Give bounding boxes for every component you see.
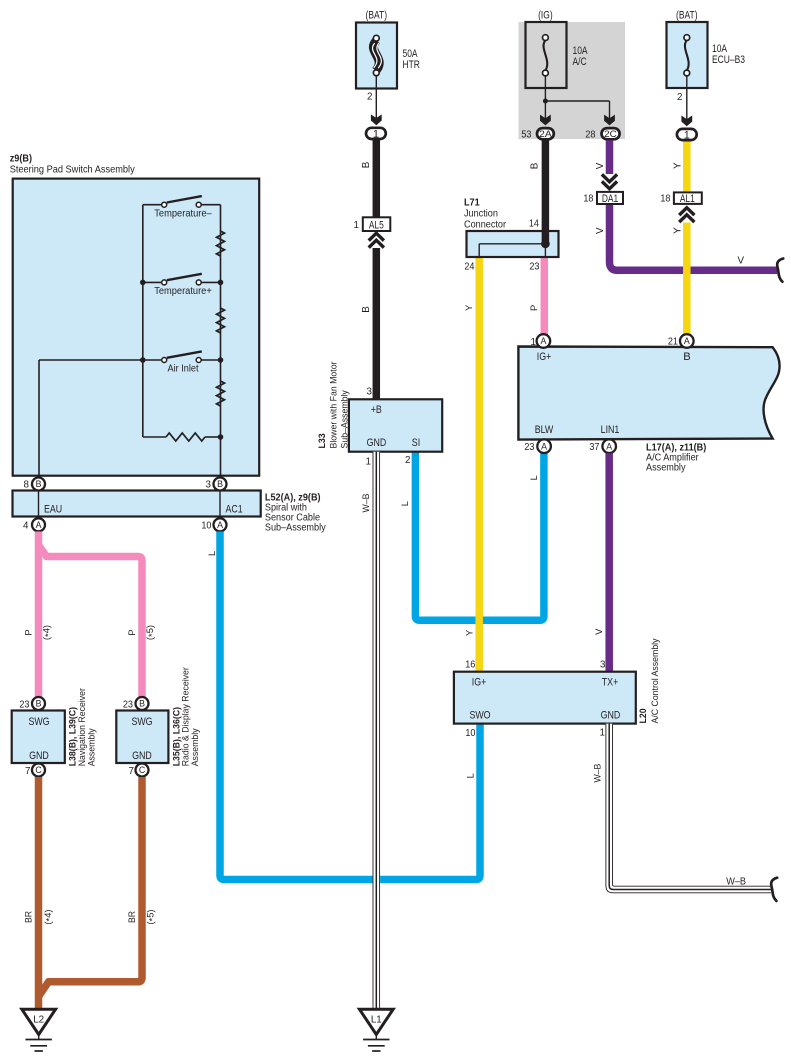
svg-text:23: 23: [19, 699, 30, 710]
svg-text:18: 18: [583, 194, 594, 205]
wire B F1 upper: [373, 140, 381, 217]
svg-text:10: 10: [201, 521, 212, 532]
wire L71 internal: [544, 244, 546, 257]
svg-text:C: C: [139, 765, 146, 775]
svg-text:28: 28: [585, 129, 596, 140]
svg-text:DA1: DA1: [602, 193, 618, 205]
svg-text:23: 23: [529, 262, 540, 273]
wire V 2C to DA1: [606, 140, 614, 174]
wire Y AL1 to amp pin21: [683, 223, 691, 336]
arrow into connector 1 ECU: [681, 116, 692, 127]
svg-text:Connector: Connector: [464, 220, 507, 231]
svg-text:16: 16: [465, 660, 476, 671]
svg-text:L: L: [464, 773, 475, 778]
svg-text:SWG: SWG: [28, 716, 49, 728]
svg-text:A: A: [36, 520, 42, 530]
wire L AC1 to SWO: [220, 532, 480, 880]
svg-text:LIN1: LIN1: [601, 424, 620, 436]
svg-text:L1: L1: [371, 1015, 382, 1026]
svg-text:(IG): (IG): [538, 9, 553, 21]
svg-text:B: B: [530, 162, 541, 169]
svg-text:B: B: [361, 161, 372, 168]
svg-text:10: 10: [465, 728, 476, 739]
svg-text:Sub–Assembly: Sub–Assembly: [265, 523, 326, 534]
chevrons DA1: [602, 181, 617, 188]
svg-text:24: 24: [464, 262, 475, 273]
wire pin3 through strip: [219, 476, 221, 524]
fuse F3 element: [685, 40, 689, 70]
svg-text:Y: Y: [673, 227, 684, 234]
svg-text:Y: Y: [463, 304, 474, 311]
svg-text:SWO: SWO: [469, 709, 490, 721]
svg-text:ECU–B3: ECU–B3: [712, 54, 745, 66]
fuse F1 50A HTR box: [356, 23, 397, 89]
svg-text:A: A: [541, 441, 547, 451]
svg-text:1: 1: [354, 220, 359, 231]
svg-text:+B: +B: [371, 404, 382, 416]
spiral cable strip box: [13, 491, 261, 517]
svg-text:B: B: [36, 699, 42, 709]
blower motor box L33: [349, 399, 442, 451]
svg-text:Assembly: Assembly: [646, 463, 686, 474]
svg-text:GND: GND: [601, 709, 621, 721]
fuse F1 element: [373, 40, 379, 71]
svg-text:Y: Y: [464, 629, 475, 636]
svg-text:V: V: [595, 162, 606, 169]
wire F3 down: [686, 76, 688, 121]
svg-text:1: 1: [684, 130, 690, 142]
svg-text:2: 2: [677, 92, 682, 103]
svg-text:2A: 2A: [539, 129, 552, 139]
svg-text:Blower with Fan Motor: Blower with Fan Motor: [328, 362, 339, 449]
svg-text:A: A: [684, 336, 690, 346]
svg-text:B: B: [683, 351, 690, 363]
resistor R1: [217, 231, 225, 256]
wire P pin4 down: [35, 532, 43, 698]
ground L1: [359, 1009, 393, 1034]
svg-text:3: 3: [600, 660, 606, 671]
resistor R4: [166, 433, 205, 441]
wire W-B L20 GND elbow: [609, 724, 771, 890]
svg-text:1: 1: [373, 128, 379, 140]
svg-text:B: B: [217, 479, 223, 489]
junction dot F2: [543, 99, 548, 104]
arrow into 2A: [540, 115, 551, 126]
connector oval 1 HTR: [366, 128, 386, 139]
svg-text:(BAT): (BAT): [676, 9, 698, 21]
svg-text:Air Inlet: Air Inlet: [168, 364, 199, 375]
svg-text:8: 8: [24, 480, 30, 491]
chevrons AL1: [679, 208, 694, 215]
svg-text:2C: 2C: [604, 129, 617, 139]
svg-text:14: 14: [529, 219, 540, 230]
junction dots air inlet row: [140, 357, 146, 363]
switch Air Inlet: [143, 359, 162, 361]
svg-text:W–B: W–B: [591, 764, 602, 783]
svg-text:L20: L20: [637, 708, 648, 723]
fuse F2 10A A/C box: [526, 22, 567, 88]
wire Y F3 to AL1: [683, 141, 691, 192]
svg-text:GND: GND: [132, 750, 152, 762]
svg-text:2: 2: [405, 455, 410, 466]
wire BR nav down: [35, 777, 43, 1009]
connector DA1 box: [597, 192, 623, 204]
junction dot L71: [541, 239, 550, 248]
svg-text:(*5): (*5): [145, 909, 158, 924]
junction dot bottom row: [218, 434, 224, 440]
wire V DA1 elbow right: [610, 204, 778, 270]
svg-text:1: 1: [366, 456, 371, 467]
junction dots temp+ row: [140, 280, 146, 286]
A/C amplifier assembly box: [518, 347, 779, 440]
svg-text:Junction: Junction: [464, 209, 498, 220]
svg-text:IG+: IG+: [472, 677, 487, 689]
svg-text:Steering Pad Switch Assembly: Steering Pad Switch Assembly: [10, 165, 135, 176]
svg-text:L2: L2: [33, 1015, 44, 1026]
svg-text:P: P: [126, 629, 137, 635]
wire B 2A to L71: [542, 140, 550, 244]
svg-text:A: A: [217, 520, 223, 530]
svg-text:1: 1: [531, 337, 536, 348]
svg-text:C: C: [35, 765, 42, 775]
wire V LIN1 to TX+: [605, 453, 613, 671]
svg-text:3: 3: [367, 387, 373, 398]
svg-text:A: A: [606, 441, 612, 451]
A/C control assembly box L20: [454, 672, 636, 724]
wire P branch to radio: [39, 545, 143, 697]
svg-text:18: 18: [660, 194, 671, 205]
wire W-B blower GND to ground L1: [373, 452, 381, 1010]
svg-text:(BAT): (BAT): [366, 9, 388, 21]
svg-text:Assembly: Assembly: [85, 728, 96, 766]
connector AL1 box: [674, 192, 702, 204]
svg-text:EAU: EAU: [44, 504, 62, 516]
svg-text:GND: GND: [367, 437, 387, 449]
svg-text:z9(B): z9(B): [10, 154, 32, 165]
svg-text:37: 37: [589, 442, 599, 453]
svg-text:V: V: [595, 227, 606, 234]
svg-text:1: 1: [600, 728, 605, 739]
svg-text:4: 4: [23, 521, 29, 532]
svg-text:(*4): (*4): [41, 625, 54, 640]
svg-text:A: A: [540, 336, 546, 346]
resistor R2: [217, 308, 225, 333]
wire L SI to BLW: [415, 452, 544, 621]
svg-text:B: B: [139, 699, 145, 709]
svg-text:BR: BR: [23, 911, 34, 923]
svg-text:L: L: [206, 551, 217, 556]
svg-text:L33: L33: [316, 433, 327, 448]
steering pad switch assembly z9(B) box: [13, 179, 260, 476]
svg-text:7: 7: [25, 766, 30, 777]
squiggle W-B end: [771, 878, 777, 901]
svg-text:Temperature–: Temperature–: [154, 208, 212, 219]
fuse F3 10A ECU-B3 box: [667, 22, 708, 88]
wire P L71 to amp IG+: [541, 255, 549, 335]
squiggle V wire end: [777, 259, 783, 282]
wire pin14 into L71: [542, 231, 550, 244]
junction connector L71 box: [467, 231, 559, 257]
svg-text:GND: GND: [29, 750, 49, 762]
svg-text:HTR: HTR: [403, 59, 421, 71]
wire pin8 through strip: [38, 476, 40, 524]
wire z9 right vertical: [220, 205, 222, 476]
svg-text:L: L: [399, 501, 410, 506]
svg-text:AL5: AL5: [369, 220, 384, 232]
svg-text:L: L: [528, 475, 539, 480]
navigation receiver box: [12, 711, 65, 764]
wire F1 to connector: [375, 76, 377, 120]
radio display receiver box: [116, 711, 168, 764]
svg-text:2: 2: [367, 92, 372, 103]
svg-text:BLW: BLW: [535, 424, 554, 436]
wire z9 left vertical: [142, 205, 144, 437]
svg-text:Assembly: Assembly: [189, 728, 200, 766]
connector oval 2A: [537, 128, 554, 139]
wire F2 branch right: [545, 100, 609, 102]
svg-text:(*4): (*4): [42, 909, 55, 924]
svg-text:Temperature+: Temperature+: [154, 286, 212, 297]
svg-text:A/C Control Assembly: A/C Control Assembly: [649, 638, 660, 723]
svg-text:V: V: [737, 256, 744, 267]
wire Y L71 pin24 to L20: [475, 255, 483, 672]
connector AL5 box: [363, 217, 391, 231]
ground L2: [22, 1009, 56, 1034]
svg-text:AC1: AC1: [226, 504, 243, 516]
pin 21 A amp: [680, 334, 694, 348]
svg-text:23: 23: [524, 442, 535, 453]
svg-text:23: 23: [123, 699, 134, 710]
svg-text:7: 7: [129, 766, 134, 777]
svg-text:Y: Y: [673, 162, 684, 169]
svg-text:A/C: A/C: [573, 56, 587, 68]
svg-text:AL1: AL1: [680, 193, 695, 205]
connector oval 2C: [602, 128, 620, 139]
svg-text:B: B: [361, 306, 372, 313]
svg-text:SI: SI: [412, 437, 420, 449]
svg-text:W–B: W–B: [360, 494, 371, 513]
arrow into 2C: [604, 115, 615, 126]
svg-text:L71: L71: [464, 198, 480, 209]
wire B F1 lower: [373, 248, 381, 399]
wire z9 bottom row: [143, 436, 166, 438]
wire air inlet to pin 8: [39, 359, 143, 361]
resistor R3: [217, 381, 225, 406]
svg-text:53: 53: [521, 129, 532, 140]
svg-text:3: 3: [206, 480, 212, 491]
svg-text:V: V: [593, 628, 604, 635]
svg-text:W–B: W–B: [726, 877, 746, 888]
fuse F2 element: [544, 40, 548, 70]
svg-text:TX+: TX+: [602, 677, 619, 689]
svg-text:B: B: [36, 479, 42, 489]
gray background IG feed area: [519, 22, 626, 139]
svg-text:(*5): (*5): [144, 625, 157, 640]
wire BR radio elbow: [39, 777, 143, 997]
connector oval 1 ECU: [677, 129, 697, 140]
switch Temperature+: [143, 281, 162, 283]
arrow into connector 1 HTR: [371, 114, 382, 125]
svg-text:SWG: SWG: [131, 716, 152, 728]
svg-text:IG+: IG+: [537, 351, 552, 363]
svg-text:BR: BR: [126, 911, 137, 923]
svg-text:Sub–Assembly: Sub–Assembly: [339, 390, 350, 449]
wire F2 down: [544, 76, 546, 120]
switch Temperature-: [143, 204, 162, 206]
chevrons AL5: [369, 233, 384, 240]
svg-text:P: P: [528, 305, 539, 311]
svg-text:P: P: [23, 629, 34, 635]
